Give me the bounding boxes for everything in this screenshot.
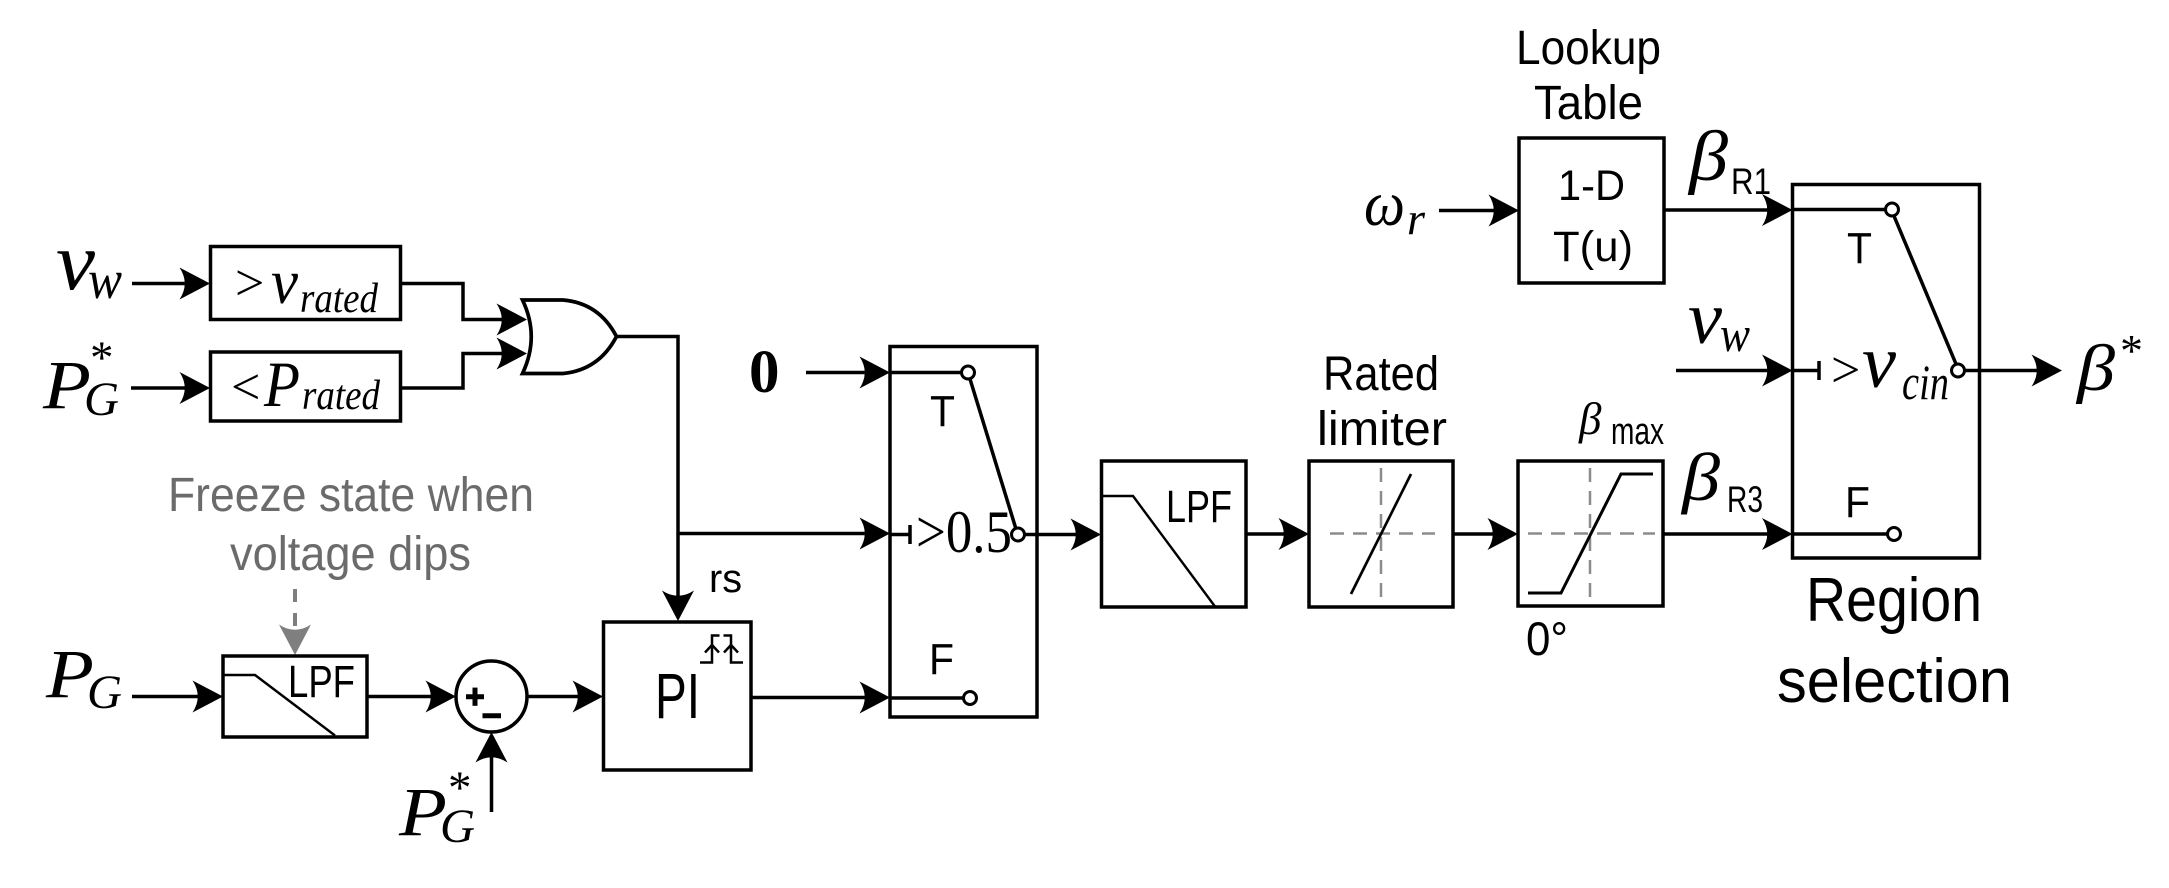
svg-text:v: v [271,246,299,317]
svg-text:Lookup: Lookup [1516,22,1661,75]
svg-text:rs: rs [709,557,742,601]
wire junction to PI reset [662,534,694,622]
svg-text:*: * [2120,325,2143,376]
wire comparator 1 to OR gate [401,284,528,336]
svg-text:v: v [1688,277,1723,360]
sum junction [456,661,527,732]
svg-text:max: max [1611,411,1664,453]
svg-text:β: β [1578,394,1602,444]
wire 0 to switch 1 T input [806,357,890,389]
switch 2 output contact [1952,364,1965,377]
svg-text:T(u): T(u) [1553,223,1633,271]
label Rated limiter [1317,348,1447,456]
switch 1 threshold tick [890,533,910,537]
switch 1 T contact [890,371,961,375]
switch 2 threshold tick [1793,369,1820,373]
label Region selection [1777,566,2012,716]
svg-text:F: F [1845,478,1870,527]
svg-text:>0.5: >0.5 [916,499,1012,565]
block LPF2 [1102,461,1247,607]
block LPF1 [223,656,367,737]
block 1-D lookup table [1519,138,1664,283]
wire P_G to LPF1 [132,681,223,713]
input label P*_G [42,332,119,426]
svg-text:selection: selection [1777,647,2012,716]
switch 2 region selection block [1793,185,1980,559]
comparator block >v_rated [211,246,401,322]
wire LPF1 to sum [367,681,456,713]
output label beta* [2075,325,2143,405]
wire sum to PI [527,681,603,713]
label Lookup Table [1516,22,1661,130]
switch 1 output contact [1012,528,1025,541]
switch 1 arm [970,379,1016,529]
svg-text:0: 0 [749,339,780,406]
input label P*_G reference [398,762,475,853]
svg-text:T: T [1847,224,1872,273]
svg-text:LPF: LPF [288,656,355,707]
wire v_w to comparator 1 [132,268,210,300]
svg-text:LPF: LPF [1166,481,1232,532]
wire rate limiter to saturation [1453,518,1518,550]
svg-text:ω: ω [1364,168,1405,239]
annotation Freeze state when voltage dips [168,469,534,581]
svg-text:Freeze state when: Freeze state when [168,469,534,522]
wire LPF2 to rate limiter [1246,518,1309,550]
svg-text:rated: rated [302,373,381,419]
input label v_w 2 [1688,277,1750,362]
wire region switch to output [1980,355,2063,387]
switch 2 F contact [1793,532,1888,536]
wire OR gate to junction [617,337,679,534]
wire lookup table to region switch T input [1664,194,1793,226]
svg-text:w: w [88,249,122,310]
wire PI to switch 1 F input [751,682,890,714]
switch 2 arm [1894,216,1956,364]
label beta_R1 [1687,118,1771,202]
wire saturation to region switch F input [1663,518,1793,550]
svg-text:rated: rated [300,276,379,322]
svg-text:G: G [84,373,119,426]
svg-text:R3: R3 [1727,479,1763,520]
label beta_max [1578,394,1664,453]
svg-text:v: v [1862,321,1897,404]
svg-text:Region: Region [1806,566,1982,635]
wire v_w to region switch middle [1676,355,1793,387]
block saturation [1518,461,1663,606]
switch 1 F contact [890,696,964,700]
switch 2 T contact [1793,208,1886,212]
wire junction to switch 1 middle [678,518,890,550]
comparator block <P_rated [211,349,401,421]
input label P_G [45,636,122,719]
block PI with anti-windup icon [604,622,752,770]
dashed annotation arrow [279,589,311,655]
block rate limiter [1309,461,1453,607]
svg-text:limiter: limiter [1317,403,1447,456]
svg-text:G: G [87,666,122,719]
svg-text:1-D: 1-D [1558,162,1625,210]
svg-text:0°: 0° [1526,612,1568,665]
input label v_w [56,215,122,310]
svg-text:F: F [929,635,954,684]
svg-text:Table: Table [1534,77,1643,130]
svg-text:w: w [1720,306,1750,362]
wire switch 1 to LPF2 [1037,519,1101,551]
wire omega_r to lookup table [1439,195,1519,227]
svg-text:Rated: Rated [1323,348,1439,401]
svg-text:voltage dips: voltage dips [230,528,471,581]
svg-text:PI: PI [655,660,700,732]
label beta_R3 [1680,439,1763,520]
svg-text:P: P [263,349,300,421]
input label omega_r [1364,168,1426,244]
switch 1 block [890,347,1037,718]
wire P*_G to comparator 2 [131,372,210,404]
svg-text:β: β [1687,118,1729,196]
svg-text:r: r [1407,193,1426,244]
svg-text:T: T [930,387,955,436]
svg-text:<: < [231,359,260,416]
svg-text:>: > [235,255,264,312]
svg-text:β: β [1680,439,1720,515]
svg-text:β: β [2075,332,2115,405]
svg-text:G: G [440,800,475,853]
OR gate [523,300,617,374]
svg-text:cin: cin [1902,354,1949,410]
wire comparator 2 to OR gate [401,338,528,389]
svg-text:>: > [1831,342,1860,399]
wire P*_G to sum [476,732,508,812]
